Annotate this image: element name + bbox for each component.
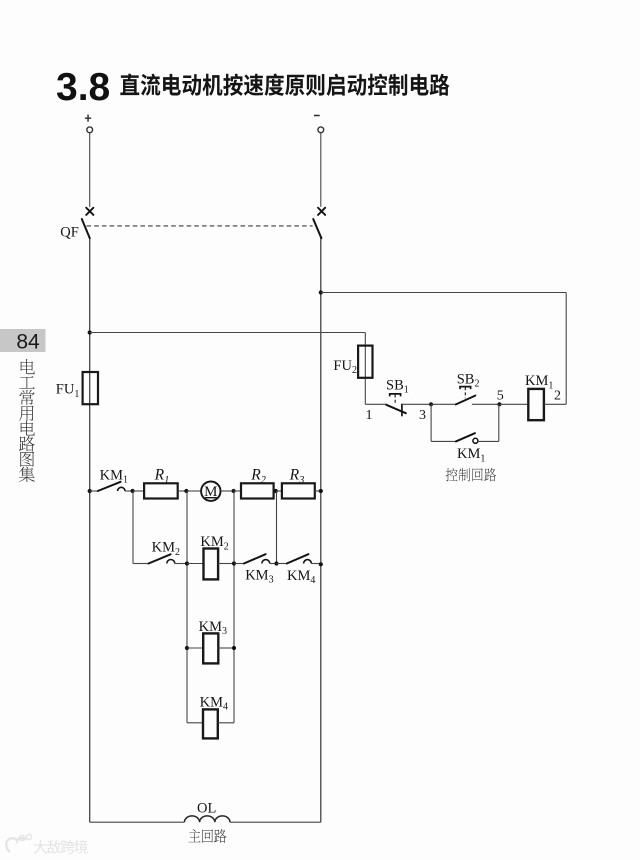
svg-text:2: 2 [554,388,561,403]
wire KM1 coil to node 2 riser [544,403,566,405]
circuit breaker QF right pole X [318,208,325,215]
svg-text:KM1: KM1 [100,467,128,485]
wire R1 to node B [178,490,187,492]
sidebar text 电工常用电路图集 [19,359,35,482]
wire bottom left segment [90,821,185,823]
accelerating contact KM2 arc [167,560,175,564]
QF left pole blade [82,219,90,238]
wire KM1 contact to node A [125,490,133,492]
svg-text:KM2: KM2 [152,540,180,558]
resistor R2 [241,483,274,498]
main contact KM1 blade [98,482,121,491]
row3 junction right [232,646,236,650]
wire motor to node C [221,490,235,492]
wire node 3 down to hold branch [430,404,432,441]
node junction on left bus feeding FU2 branch [88,330,92,334]
plus terminal [87,127,93,133]
wire FU2 to node 1 corner, turn right [365,403,386,405]
wire left bus to FU2 (crosses right bus without junction) [90,332,366,334]
wire KM3 contact to junction [270,563,277,565]
SB1 fixed terminal tick [401,404,403,415]
svg-text:1: 1 [366,408,373,423]
sidebar page number box [0,329,46,352]
junction right bus row1 [319,489,323,493]
svg-text:FU2: FU2 [333,358,357,376]
node B junction [184,489,188,493]
contact KM4 blade [287,554,309,563]
node D junction [274,489,278,493]
title text 直流电动机按速度原则启动控制电路 [120,74,449,96]
QF right pole blade [313,219,321,238]
wire junction to coil KM3 [187,647,203,649]
auxiliary contact KM1 fixed contact circle [473,438,478,443]
overload element OL winding [184,816,230,822]
wire - terminal to QF right pole [320,133,322,207]
row2 junction at node B riser [185,561,189,565]
junction right bus row2 [319,562,323,566]
wire junction to KM4 contact [277,563,287,565]
wire node B to motor [187,490,201,492]
wire node 5 to KM1 coil [499,403,528,405]
caption 控制回路 [446,468,497,481]
node junction right bus to control loop [319,290,323,294]
row2 junction at node C riser [232,561,236,565]
minus terminal [318,127,324,133]
contactor coil KM3 [203,633,218,663]
contact KM3 blade [244,554,266,563]
main contact KM1 arc [118,487,125,491]
SB2 NO contact blade [456,396,475,405]
row3 junction left [185,646,189,650]
contactor coil KM1 [528,389,544,420]
node 5 junction [497,402,501,406]
wire QF to bottom left [89,238,91,822]
auxiliary contact KM1 blade [456,433,475,441]
SB2 actuator [460,387,471,390]
contactor coil KM2 [204,549,219,580]
wire coil KM2 to junction [218,563,234,565]
wire R2 to node D [274,490,277,492]
wire coil KM4 to right corner [218,722,234,724]
wire KM4 contact to right bus [311,563,320,565]
wire node B down through rows [186,491,188,723]
minus terminal label [314,115,320,117]
caption 主回路 [188,829,226,843]
accelerating contact KM2 blade [149,554,171,563]
wire + terminal to QF [89,133,91,207]
svg-text:FU1: FU1 [56,382,80,400]
svg-text:SB1: SB1 [386,377,409,395]
wire bottom right segment [230,821,321,823]
plus terminal label [85,115,91,122]
wire down into FU2 [364,333,366,405]
wire corner to coil KM4 left [187,722,203,724]
wire R3 to right bus [315,490,321,492]
wire node A to R1 [133,490,144,492]
svg-text:QF: QF [60,224,79,240]
resistor R3 [282,483,315,498]
wire hold branch bottom left [431,440,456,442]
fuse FU2 [358,346,372,378]
svg-text:KM4: KM4 [287,568,315,586]
watermark icon [6,838,26,852]
svg-text:OL: OL [197,800,216,816]
svg-text:KM3: KM3 [245,567,273,585]
wire junction to KM3 contact [234,563,244,565]
circuit breaker QF left pole X [86,208,93,215]
wire node C to R2 [234,490,241,492]
SB1 NC contact blade [386,405,406,413]
wire hold branch bottom right [478,440,499,442]
wire right bus to control right riser [321,292,566,294]
node C junction [232,489,236,493]
SB1 actuator [390,394,401,397]
wire node A down to KM2 contact [132,491,134,564]
junction left bus row1 [88,489,92,493]
contact KM3 arc [262,560,270,564]
wire QF right pole down right side [320,238,322,822]
wire node C down through rows [233,491,235,723]
wire junction to coil KM2 [187,563,204,565]
wire node D down to row2 [276,491,278,564]
node 3 junction [429,402,433,406]
svg-text:5: 5 [497,388,504,403]
wire node 3 to SB2 [431,403,456,405]
wire SB1 to node 3 [402,403,431,405]
node A junction [131,489,135,493]
contact KM4 arc [304,560,312,564]
wire left bus to KM1 main contact [90,490,98,492]
contactor coil KM4 [203,709,218,738]
svg-text:3.8: 3.8 [56,66,110,109]
wire node D to R3 [277,490,282,492]
watermark text [34,840,88,854]
row2 junction at node D riser [274,561,278,565]
wire coil KM3 to junction [218,647,234,649]
svg-text:84: 84 [16,331,40,354]
control right riser wire [565,293,567,405]
svg-text:3: 3 [419,408,426,423]
fuse FU1 [83,372,98,404]
motor M armature [201,482,220,501]
wire SB2 to node 5 [472,403,500,405]
QF mechanical link dashed line [87,225,313,227]
resistor R1 [144,483,178,498]
wire hold branch up to node 5 [498,404,500,441]
svg-text:KM1: KM1 [457,446,485,464]
wire KM2 contact to junction [175,563,187,565]
